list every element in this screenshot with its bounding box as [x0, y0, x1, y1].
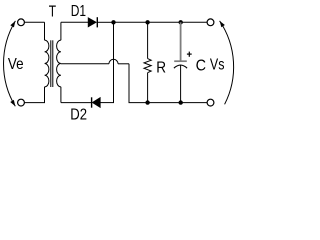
wire center tap drop	[128, 64, 130, 103]
junction dot D1 output	[111, 20, 115, 24]
wire secondary top vertical	[60, 22, 62, 40]
wire bottom-left rail	[25, 102, 45, 104]
resistor R zigzag	[144, 59, 151, 73]
capacitor C top lead	[180, 22, 182, 60]
terminal bottom-right	[207, 99, 214, 106]
wire secondary bottom vertical	[60, 87, 62, 103]
wire center tap left segment	[61, 63, 109, 65]
svg-text:Ve: Ve	[8, 56, 24, 73]
wire riser D2 to top node	[113, 22, 115, 102]
svg-text:Vs: Vs	[210, 56, 225, 74]
wire center tap right segment	[118, 63, 129, 65]
transformer T secondary winding	[57, 40, 61, 87]
Ve arrowhead bottom	[10, 100, 15, 106]
capacitor C plus sign	[187, 53, 192, 55]
wire primary top vertical	[44, 22, 46, 40]
wire bottom rail	[129, 102, 208, 104]
diode D2	[92, 97, 100, 107]
wire D2 to riser	[100, 102, 114, 104]
wire primary bottom vertical	[44, 87, 46, 103]
Vs arrowhead top	[220, 21, 225, 27]
svg-text:D2: D2	[70, 106, 87, 123]
svg-text:D1: D1	[71, 1, 86, 19]
wire secondary top to D1	[61, 21, 88, 23]
junction dot R bottom	[145, 100, 149, 104]
wire hop over riser	[109, 59, 118, 64]
terminal top-right	[207, 19, 214, 26]
Vs output arrow arc	[220, 21, 234, 104]
transformer T primary winding	[45, 40, 49, 87]
resistor R leads	[147, 22, 149, 58]
svg-text:C: C	[196, 57, 206, 75]
transformer T core	[50, 40, 52, 87]
wire D1 to node	[98, 21, 114, 23]
junction dot R top	[145, 20, 149, 24]
svg-text:T: T	[49, 2, 57, 20]
Ve arrowhead top	[10, 21, 15, 27]
svg-text:R: R	[156, 59, 166, 76]
capacitor C bottom plate arc	[174, 65, 187, 68]
capacitor C bottom lead	[180, 65, 182, 102]
terminal top-left	[18, 19, 25, 26]
wire top-left rail	[25, 21, 45, 23]
terminal bottom-left	[18, 99, 25, 106]
capacitor C top plate	[174, 60, 187, 62]
junction dot C bottom	[179, 100, 183, 104]
diode D1	[88, 18, 96, 27]
wire top rail	[114, 21, 208, 23]
junction dot C top	[179, 20, 183, 24]
wire secondary bottom to D2	[61, 102, 91, 104]
Ve source arrow arc	[4, 21, 16, 106]
